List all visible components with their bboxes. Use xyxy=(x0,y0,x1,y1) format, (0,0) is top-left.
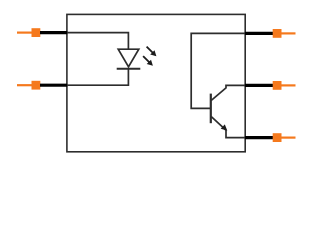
optocoupler body U1 xyxy=(67,14,245,151)
terminal 4 lead wire (middle-right) xyxy=(245,84,273,87)
wire collector (transistor to terminal 4) xyxy=(211,85,245,100)
terminal 5 orange clamp square xyxy=(273,133,282,142)
terminal 1 orange pin line (top-left) xyxy=(17,31,32,33)
transistor Q1 base bar xyxy=(210,94,212,124)
LED D1 triangle xyxy=(118,49,139,67)
emitter arrowhead xyxy=(221,124,228,130)
terminal 3 lead wire (top-right) xyxy=(245,32,273,35)
wire base (terminal 3 to transistor base) xyxy=(191,33,245,108)
terminal 4 orange clamp square xyxy=(273,81,282,90)
terminal 5 lead wire (bottom-right) xyxy=(245,136,273,139)
light arrow 1 xyxy=(147,47,157,57)
wire anode (terminal 1 to LED) xyxy=(67,33,128,49)
terminal 5 orange pin line xyxy=(282,137,296,139)
terminal 2 lead wire xyxy=(40,84,68,87)
terminal 2 orange clamp square xyxy=(32,81,41,90)
terminal 3 orange clamp square xyxy=(273,29,282,38)
wire emitter (transistor to terminal 5) xyxy=(211,117,245,138)
light arrow 2 xyxy=(143,56,153,66)
LED D1 cathode bar xyxy=(117,68,141,70)
terminal 1 orange clamp square xyxy=(32,28,41,37)
terminal 1 lead wire xyxy=(40,31,68,34)
wire cathode (LED to terminal 2) xyxy=(67,69,128,86)
terminal 4 orange pin line xyxy=(282,84,296,86)
terminal 3 orange pin line xyxy=(282,32,296,34)
terminal 2 orange pin line (bottom-left) xyxy=(17,84,32,86)
